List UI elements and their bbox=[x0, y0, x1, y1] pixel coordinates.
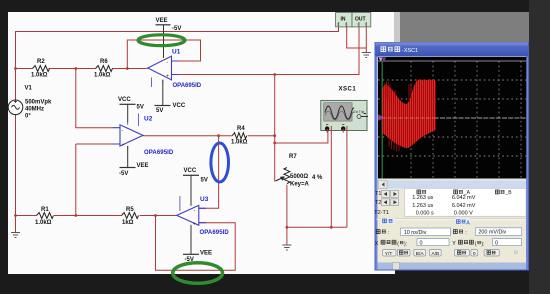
svg-text:1.0kΩ: 1.0kΩ bbox=[31, 73, 48, 79]
svg-text:0°: 0° bbox=[25, 114, 31, 120]
svg-text:OPA695ID: OPA695ID bbox=[200, 230, 230, 236]
green cursor line bbox=[381, 61, 383, 179]
section label channel A bbox=[455, 218, 470, 225]
VCC supply under U1 bbox=[155, 105, 171, 107]
grid bbox=[378, 61, 526, 179]
wire junction to R4 node vertical bbox=[274, 75, 276, 144]
wire U2 out down to U3 bbox=[199, 136, 219, 209]
svg-text:VCC: VCC bbox=[184, 168, 197, 174]
content panel bbox=[378, 57, 527, 268]
wire U1 feedback loop bbox=[127, 40, 200, 69]
ground under R7 bbox=[282, 245, 291, 250]
op-amp U2 bbox=[113, 114, 144, 150]
svg-text:5V: 5V bbox=[156, 108, 163, 114]
svg-text:U2: U2 bbox=[144, 116, 153, 123]
svg-text:IN: IN bbox=[341, 16, 346, 22]
svg-text:1.0kΩ: 1.0kΩ bbox=[231, 140, 248, 146]
center line over waveform bbox=[382, 117, 436, 119]
blue ellipse annotation bbox=[211, 143, 229, 182]
green ellipse annotation bottom bbox=[173, 263, 223, 284]
svg-text:VCC: VCC bbox=[118, 97, 131, 103]
svg-text:5V: 5V bbox=[201, 178, 208, 184]
op-amp U1 (mirrored) bbox=[148, 54, 179, 88]
svg-text:VCC: VCC bbox=[173, 103, 186, 109]
wire IN pin2 to ground bbox=[347, 27, 367, 53]
svg-text:2: 2 bbox=[337, 23, 339, 27]
svg-text:6.042 mV: 6.042 mV bbox=[452, 203, 476, 209]
VEE supply under U2 bbox=[120, 167, 136, 169]
buttons row bbox=[383, 249, 500, 256]
svg-text:A/B: A/B bbox=[432, 251, 440, 257]
wire output row left bbox=[16, 68, 33, 70]
wire top rail bbox=[16, 27, 339, 69]
wire R4 node to scope A bbox=[275, 131, 328, 143]
svg-text:R5: R5 bbox=[126, 207, 134, 213]
svg-text:R4: R4 bbox=[237, 126, 245, 132]
svg-text:Y/T: Y/T bbox=[385, 251, 393, 257]
resistor R1 bbox=[37, 213, 54, 219]
VCC supply above U2 bbox=[120, 103, 136, 105]
junction R5/U3 node bbox=[154, 214, 157, 217]
svg-text:2: 2 bbox=[357, 23, 359, 27]
svg-text:A: A bbox=[466, 220, 470, 226]
junction U1 plus rail node bbox=[273, 73, 276, 76]
scope screen bbox=[378, 57, 526, 179]
junction R7 ground node bbox=[286, 226, 289, 229]
svg-text:0.000 s: 0.000 s bbox=[416, 210, 434, 216]
svg-text:T2: T2 bbox=[375, 200, 381, 206]
OUT connector bbox=[352, 13, 371, 27]
svg-text:R1: R1 bbox=[41, 207, 49, 213]
svg-text:0: 0 bbox=[495, 241, 498, 247]
svg-text:OPA695ID: OPA695ID bbox=[173, 83, 202, 89]
svg-text:-5V: -5V bbox=[172, 26, 181, 32]
scale row bbox=[376, 230, 386, 234]
wire U1 plus rail to OUT pin bbox=[179, 27, 360, 75]
separator bbox=[377, 218, 527, 220]
svg-text:+: + bbox=[193, 222, 196, 228]
svg-text:1kΩ: 1kΩ bbox=[122, 220, 134, 226]
wire to R7 wiper bbox=[274, 143, 276, 182]
svg-text:40MHz: 40MHz bbox=[25, 107, 44, 113]
junction scope ground rail node bbox=[330, 226, 333, 229]
wire between R2 R6 bbox=[49, 68, 96, 70]
VCC supply above U3 bbox=[183, 174, 199, 176]
junction R6/U1 feedback node bbox=[126, 67, 129, 70]
svg-text:XSC1: XSC1 bbox=[339, 87, 357, 93]
svg-text:200 mV/Div: 200 mV/Div bbox=[478, 230, 506, 236]
resistor R6 bbox=[96, 66, 113, 72]
svg-text:X: X bbox=[375, 241, 379, 247]
wire U3 feedback loop bbox=[156, 216, 236, 271]
bezel line bbox=[378, 60, 526, 62]
svg-text:):: ): bbox=[404, 241, 407, 247]
svg-text:OPA695ID: OPA695ID bbox=[144, 150, 174, 156]
junction R2/R6 node bbox=[74, 67, 77, 70]
data table bbox=[405, 188, 527, 216]
svg-text:1.263 us: 1.263 us bbox=[412, 203, 433, 209]
svg-text:T2-T1: T2-T1 bbox=[374, 210, 389, 216]
title bar bbox=[376, 43, 529, 57]
junction V1/R2 node bbox=[14, 67, 17, 70]
junction scope A branch node bbox=[273, 142, 276, 145]
resistor R2 bbox=[33, 66, 50, 72]
title text pseudo CJK bbox=[381, 47, 400, 52]
svg-text:):: ): bbox=[481, 241, 484, 247]
svg-text:-XSC1: -XSC1 bbox=[402, 48, 418, 54]
gray workspace band bbox=[400, 12, 529, 270]
cursor markers bbox=[378, 57, 383, 61]
waveform bbox=[382, 79, 436, 148]
ground at IN/OUT bbox=[362, 53, 371, 58]
svg-text:0: 0 bbox=[473, 251, 476, 257]
wire scope A- vertical bbox=[330, 131, 332, 227]
green ellipse annotation top bbox=[138, 35, 185, 46]
svg-text:1.0kΩ: 1.0kΩ bbox=[35, 220, 52, 226]
svg-text:0.000 V: 0.000 V bbox=[454, 210, 473, 216]
svg-text:1: 1 bbox=[365, 23, 367, 27]
junction U2 output node bbox=[217, 134, 220, 137]
svg-text:-5V: -5V bbox=[119, 171, 128, 177]
svg-text:_B: _B bbox=[505, 190, 513, 196]
svg-text:U1: U1 bbox=[172, 49, 181, 56]
VEE supply under U3 bbox=[183, 253, 199, 255]
right darker strip bbox=[529, 0, 550, 294]
svg-text:5V: 5V bbox=[137, 105, 144, 111]
light canvas edge bbox=[394, 12, 400, 270]
svg-text:R7: R7 bbox=[289, 154, 297, 160]
svg-text:Ext Trig: Ext Trig bbox=[354, 110, 365, 114]
resistor R4 bbox=[232, 133, 246, 139]
svg-text:1: 1 bbox=[345, 23, 347, 27]
resistor R5 bbox=[122, 213, 139, 219]
svg-text:T1: T1 bbox=[375, 191, 381, 197]
svg-text:+: + bbox=[166, 74, 169, 80]
wire R4 right bbox=[248, 135, 275, 137]
bottom scrollbar bbox=[378, 263, 527, 270]
svg-text:V1: V1 bbox=[25, 86, 33, 92]
source V1 bbox=[8, 100, 23, 115]
junction R1/R5 node bbox=[74, 214, 77, 217]
svg-text:VEE: VEE bbox=[200, 251, 212, 257]
IN connector bbox=[336, 13, 352, 27]
svg-text:1.0kΩ: 1.0kΩ bbox=[94, 73, 111, 79]
wire bottom row bbox=[16, 215, 177, 217]
waveform spikes bbox=[385, 81, 411, 151]
svg-text:Y: Y bbox=[452, 241, 456, 247]
wire scope B- vertical bbox=[346, 131, 348, 227]
wire R7 bottom to ground rail bbox=[287, 185, 347, 245]
svg-text:1.263 us: 1.263 us bbox=[412, 195, 433, 201]
pin numbers IN/OUT bbox=[337, 23, 367, 27]
svg-text:6.042 mV: 6.042 mV bbox=[452, 195, 476, 201]
channel marker bbox=[378, 114, 384, 121]
window frame bbox=[375, 42, 530, 271]
connector pins bbox=[339, 22, 367, 27]
screen scrollbar bbox=[379, 181, 527, 189]
wire U2 out row bbox=[143, 135, 232, 137]
wire U2 minus branch bbox=[76, 69, 113, 128]
wire R6 to U1 out bbox=[112, 68, 148, 70]
wire V1 column bbox=[15, 69, 17, 101]
section label timebase bbox=[381, 218, 395, 225]
potentiometer R7 bbox=[276, 168, 290, 184]
svg-text:5000Ω: 5000Ω bbox=[290, 174, 308, 180]
arrow buttons bbox=[382, 191, 399, 206]
white schematic canvas bbox=[8, 12, 395, 274]
svg-text:VEE: VEE bbox=[137, 163, 149, 169]
svg-text:500mVpk: 500mVpk bbox=[25, 100, 52, 106]
svg-text:OUT: OUT bbox=[355, 16, 366, 22]
op-amp U3 (mirrored) bbox=[177, 196, 206, 228]
svg-text:4 %: 4 % bbox=[312, 175, 323, 181]
headers bbox=[417, 190, 505, 194]
junction R4 right node bbox=[273, 134, 276, 137]
svg-text:10 ns/Div: 10 ns/Div bbox=[404, 230, 427, 236]
svg-text:B/A: B/A bbox=[416, 251, 425, 257]
scope icon pins A B bbox=[325, 126, 329, 130]
wire V1 to ground bbox=[15, 115, 17, 233]
svg-text:U3: U3 bbox=[200, 196, 209, 203]
svg-text:R2: R2 bbox=[37, 59, 45, 65]
VEE supply top bbox=[156, 24, 171, 26]
svg-text:R6: R6 bbox=[100, 59, 108, 65]
wire U2 plus branch bbox=[76, 144, 113, 216]
ground under V1 bbox=[11, 233, 20, 238]
svg-text:0: 0 bbox=[420, 241, 423, 247]
svg-text:VEE: VEE bbox=[156, 18, 168, 24]
svg-text:+: + bbox=[122, 143, 125, 149]
junction V1/R1 node bbox=[14, 214, 17, 217]
svg-text:Key=A: Key=A bbox=[290, 182, 310, 188]
